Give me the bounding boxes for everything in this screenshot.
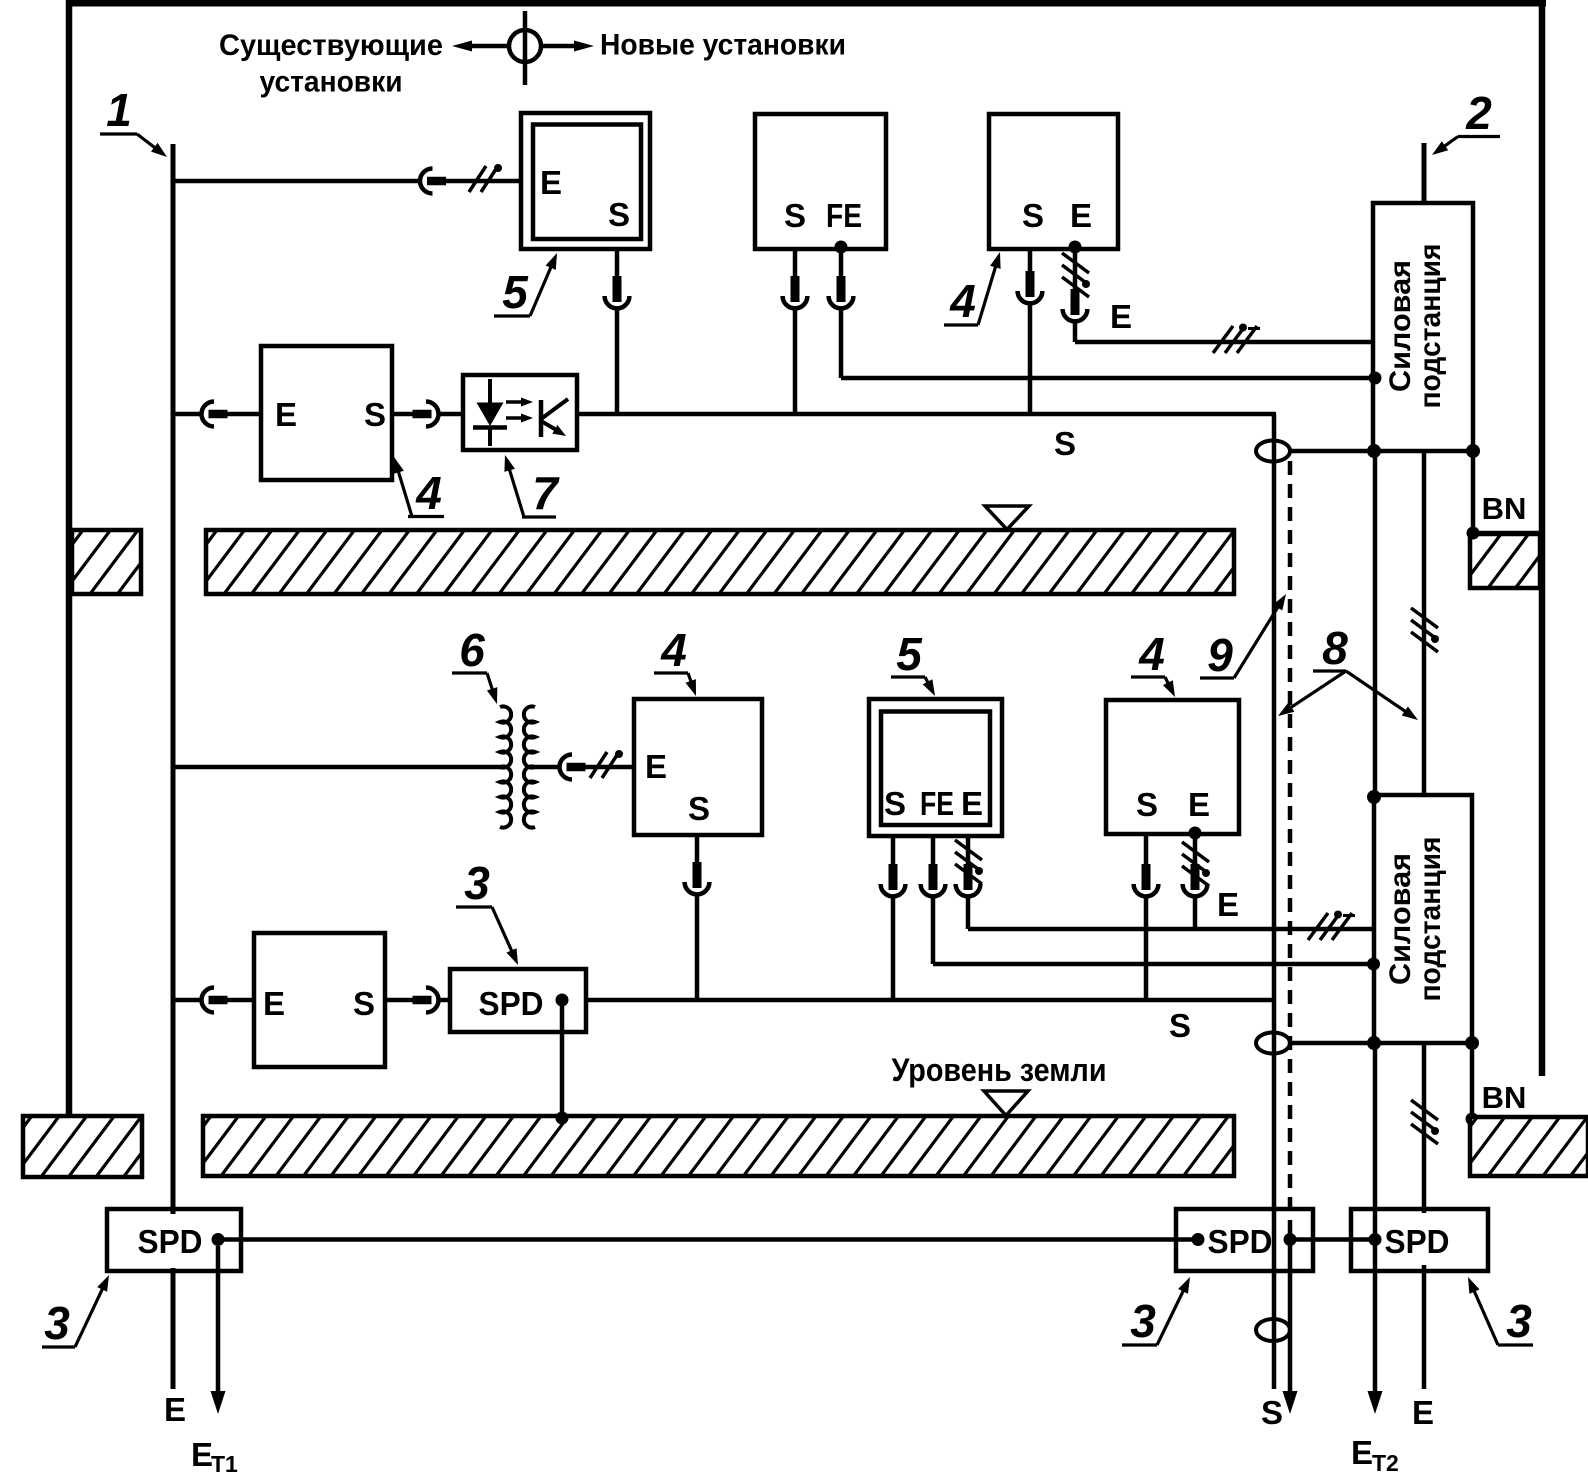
svg-text:Силовая: Силовая <box>1384 260 1417 392</box>
svg-text:E: E <box>164 1391 186 1428</box>
svg-text:подстанция: подстанция <box>1414 244 1447 409</box>
svg-text:4: 4 <box>415 467 442 519</box>
svg-text:E: E <box>1412 1394 1434 1431</box>
svg-text:S: S <box>688 790 710 827</box>
svg-text:S: S <box>1022 197 1044 234</box>
svg-text:S: S <box>1136 786 1158 823</box>
svg-text:9: 9 <box>1207 629 1233 681</box>
svg-text:E: E <box>1351 1434 1373 1471</box>
svg-text:2: 2 <box>1465 87 1492 139</box>
svg-text:SPD: SPD <box>1208 1223 1273 1260</box>
svg-text:S: S <box>1169 1007 1191 1044</box>
svg-text:установки: установки <box>260 66 403 99</box>
svg-text:S: S <box>353 985 375 1022</box>
svg-text:4: 4 <box>949 275 976 327</box>
svg-text:FE: FE <box>920 785 954 822</box>
svg-text:SPD: SPD <box>1385 1223 1450 1260</box>
svg-text:T2: T2 <box>1372 1450 1399 1472</box>
svg-text:7: 7 <box>532 467 560 519</box>
svg-text:SPD: SPD <box>138 1223 203 1260</box>
svg-text:E: E <box>275 396 297 433</box>
svg-text:BN: BN <box>1482 1080 1527 1115</box>
svg-text:4: 4 <box>660 624 687 676</box>
svg-text:3: 3 <box>1506 1295 1532 1347</box>
svg-text:S: S <box>784 197 806 234</box>
svg-text:Уровень земли: Уровень земли <box>892 1052 1107 1088</box>
svg-text:S: S <box>1054 425 1076 462</box>
svg-text:T1: T1 <box>211 1451 238 1472</box>
svg-text:E: E <box>1217 886 1239 923</box>
svg-text:E: E <box>1188 786 1210 823</box>
svg-text:8: 8 <box>1322 622 1348 674</box>
svg-text:E: E <box>540 164 562 201</box>
svg-text:подстанция: подстанция <box>1414 837 1447 1002</box>
svg-text:5: 5 <box>896 628 923 680</box>
svg-text:Силовая: Силовая <box>1384 853 1417 985</box>
svg-text:S: S <box>608 196 630 233</box>
svg-text:E: E <box>1110 298 1132 335</box>
svg-text:S: S <box>1261 1394 1283 1431</box>
svg-text:FE: FE <box>826 197 862 234</box>
svg-text:1: 1 <box>106 84 132 136</box>
svg-text:4: 4 <box>1138 628 1165 680</box>
svg-text:E: E <box>191 1436 213 1472</box>
svg-text:SPD: SPD <box>479 985 544 1022</box>
svg-text:E: E <box>961 785 983 822</box>
svg-text:S: S <box>364 396 386 433</box>
svg-text:3: 3 <box>44 1297 70 1349</box>
svg-text:Существующие: Существующие <box>219 29 443 62</box>
svg-text:3: 3 <box>1130 1295 1156 1347</box>
svg-text:S: S <box>884 785 906 822</box>
svg-text:5: 5 <box>502 266 529 318</box>
svg-text:6: 6 <box>459 624 485 676</box>
svg-text:BN: BN <box>1482 491 1527 526</box>
svg-text:E: E <box>263 985 285 1022</box>
svg-text:Новые установки: Новые установки <box>600 29 846 62</box>
svg-text:3: 3 <box>464 857 490 909</box>
svg-text:E: E <box>645 748 667 785</box>
svg-text:E: E <box>1070 197 1092 234</box>
